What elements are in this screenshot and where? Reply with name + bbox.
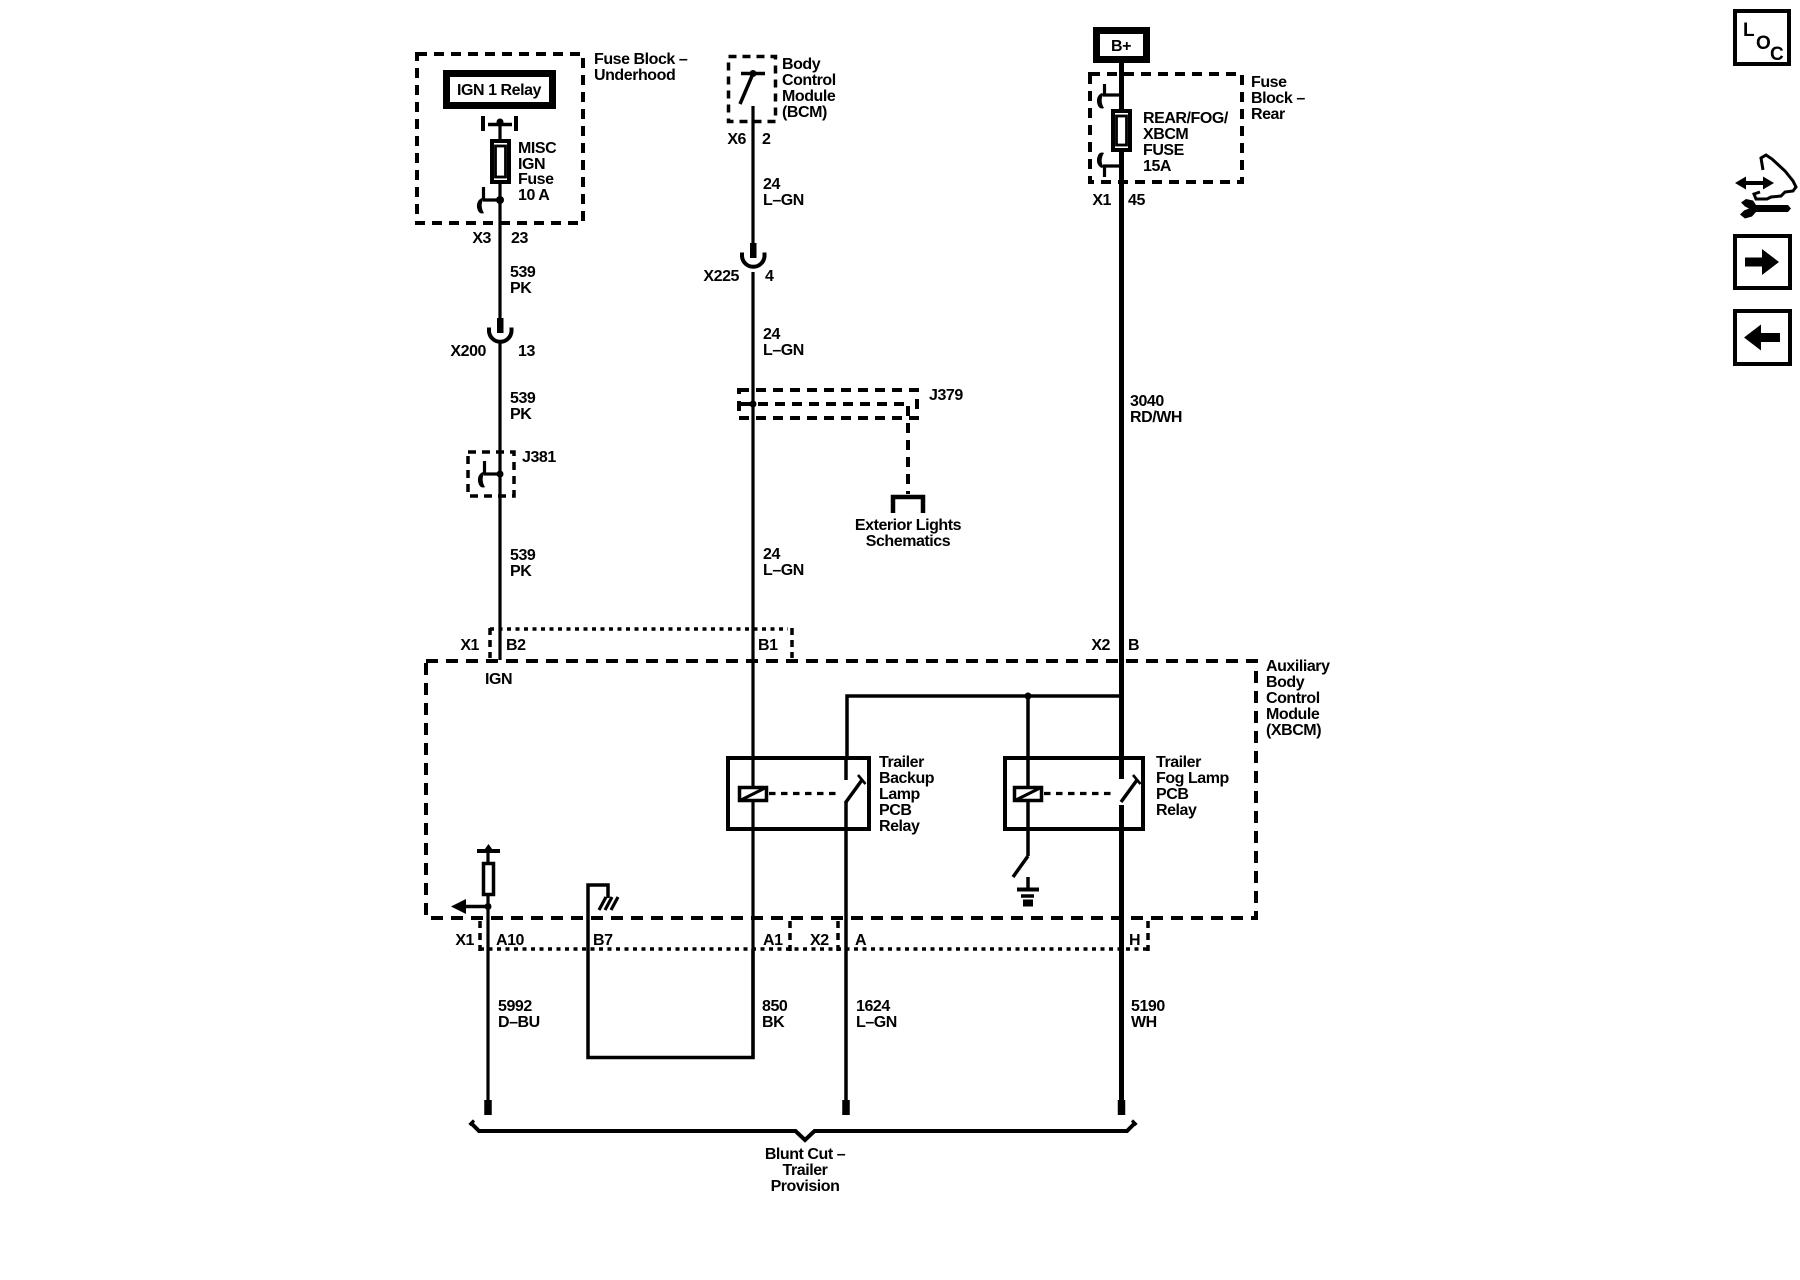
- BCM driver switch symbol: [740, 70, 765, 104]
- svg-text:Lamp: Lamp: [879, 786, 921, 803]
- svg-text:J379: J379: [929, 387, 963, 404]
- wire label 24 L-GN (second): [763, 326, 804, 359]
- fog relay coil: [1015, 788, 1042, 801]
- wire W2: backup relay coil to A1 / 850 BK loop: [751, 801, 754, 1059]
- dashed actuation link (backup relay): [769, 792, 841, 795]
- svg-text:4: 4: [765, 268, 774, 285]
- svg-text:IGN: IGN: [485, 671, 512, 688]
- pin labels X1 / A10 (bottom strip): [455, 932, 524, 949]
- label: Blunt Cut - Trailer Provision: [765, 1146, 846, 1195]
- pin labels X1 / 45: [1092, 192, 1145, 209]
- label: Trailer Fog Lamp PCB Relay: [1156, 754, 1230, 819]
- svg-text:Block –: Block –: [1251, 90, 1305, 107]
- bottom strip separators: [480, 921, 1148, 951]
- svg-text:H: H: [1129, 932, 1140, 949]
- blunt cut tip of 1624 L-GN: [842, 1100, 850, 1115]
- svg-text:B7: B7: [593, 932, 613, 949]
- nav icon: sketched arrow outline: [1754, 155, 1796, 199]
- wire label 3040 RD/WH: [1130, 393, 1182, 426]
- pin labels X2 / B (top strip): [1091, 637, 1139, 654]
- svg-text:13: 13: [518, 343, 535, 360]
- svg-text:24: 24: [763, 176, 780, 193]
- svg-text:Rear: Rear: [1251, 106, 1285, 123]
- ground symbol: [1017, 877, 1039, 907]
- svg-text:Trailer: Trailer: [879, 754, 924, 771]
- svg-text:15A: 15A: [1143, 158, 1172, 175]
- wire label 539 PK (lower): [510, 547, 536, 580]
- splice J381 dashed box: [468, 452, 514, 496]
- svg-text:X1: X1: [460, 637, 479, 654]
- svg-text:RD/WH: RD/WH: [1130, 409, 1182, 426]
- svg-text:Auxiliary: Auxiliary: [1266, 658, 1330, 675]
- svg-text:PCB: PCB: [879, 802, 911, 819]
- dashed actuation link (fog relay): [1044, 792, 1116, 795]
- svg-text:MISC: MISC: [518, 140, 557, 157]
- svg-text:23: 23: [511, 230, 528, 247]
- pin label H (bottom strip): [1129, 932, 1140, 949]
- svg-text:24: 24: [763, 326, 780, 343]
- relay box: IGN 1 Relay: [447, 74, 553, 106]
- wire: backup relay switch to X2-A (1624 L-GN): [844, 801, 848, 1101]
- wire B+: below fog relay switch down to blunt cut: [1119, 805, 1124, 1101]
- nav icon: double arrow: [1735, 177, 1774, 190]
- svg-text:X2: X2: [1091, 637, 1110, 654]
- label: Exterior Lights Schematics: [855, 517, 962, 550]
- svg-text:L–GN: L–GN: [856, 1014, 897, 1031]
- terminal hook upper (fuse block rear): [1097, 84, 1121, 109]
- svg-text:Control: Control: [1266, 690, 1320, 707]
- blunt cut tip of 5992 D-BU: [484, 1100, 492, 1115]
- fuse block rear dashed box: [1090, 74, 1242, 182]
- svg-text:A1: A1: [763, 932, 783, 949]
- svg-text:Module: Module: [1266, 706, 1320, 723]
- ground switch blade: [1013, 856, 1028, 877]
- svg-text:X1: X1: [1092, 192, 1111, 209]
- XBCM dashed box: [426, 661, 1256, 918]
- wire W1: X200 to XBCM pin B2 (539 PK): [498, 343, 501, 660]
- terminal hook lower (fuse block rear): [1097, 153, 1121, 178]
- svg-text:IGN 1 Relay: IGN 1 Relay: [457, 82, 542, 99]
- svg-text:2: 2: [762, 131, 771, 148]
- svg-text:Provision: Provision: [771, 1178, 840, 1195]
- svg-text:539: 539: [510, 547, 536, 564]
- svg-text:5190: 5190: [1131, 998, 1165, 1015]
- label J379: [929, 387, 963, 404]
- svg-text:A: A: [855, 932, 867, 949]
- wire W1: IGN1 relay to X200 (539 PK): [498, 124, 501, 318]
- svg-text:PCB: PCB: [1156, 786, 1188, 803]
- direction arrow out of XBCM: [451, 899, 492, 914]
- svg-text:B2: B2: [506, 637, 526, 654]
- wire label 5992 D-BU: [498, 998, 540, 1031]
- svg-text:Schematics: Schematics: [866, 533, 951, 550]
- backup relay switch: [846, 758, 866, 802]
- wire label 539 PK (upper): [510, 264, 536, 297]
- svg-text:24: 24: [763, 546, 780, 563]
- blunt cut tip of 5190 WH: [1118, 1100, 1126, 1115]
- wire: sensor element to X1-A10 (5992 D-BU): [486, 895, 489, 1101]
- label: MISC IGN Fuse 10 A: [518, 140, 557, 204]
- pin labels X225 / 4: [703, 268, 774, 285]
- svg-text:L: L: [1743, 20, 1755, 41]
- wire B+: thick feed from B+ box to fog relay switch (3040 RD/WH, 5190 WH): [1119, 63, 1124, 779]
- svg-text:Fuse Block –: Fuse Block –: [594, 51, 688, 68]
- nav icon: wrench: [1740, 199, 1791, 219]
- svg-text:C: C: [1770, 44, 1784, 65]
- label IGN (internal net): [485, 671, 512, 688]
- wire label 24 L-GN (upper): [763, 176, 804, 209]
- XBCM X1 connector strip (top): [490, 628, 792, 658]
- svg-text:Body: Body: [1266, 674, 1305, 691]
- svg-text:Exterior Lights: Exterior Lights: [855, 517, 962, 534]
- svg-text:O: O: [1756, 33, 1770, 54]
- svg-text:Fuse: Fuse: [1251, 74, 1287, 91]
- ground lead B7 inside XBCM: [588, 885, 608, 949]
- wire 850 BK loop B7 to A1: [588, 949, 753, 1058]
- label: Trailer Backup Lamp PCB Relay: [879, 754, 935, 835]
- svg-text:Underhood: Underhood: [594, 67, 675, 84]
- BCM dashed box: [729, 57, 776, 122]
- svg-text:L–GN: L–GN: [763, 562, 804, 579]
- svg-text:Fog Lamp: Fog Lamp: [1156, 770, 1230, 787]
- svg-text:X3: X3: [472, 230, 491, 247]
- label: Fuse Block - Underhood: [594, 51, 688, 84]
- pin label B1 (top strip): [758, 637, 778, 654]
- svg-text:FUSE: FUSE: [1143, 142, 1185, 159]
- svg-text:B1: B1: [758, 637, 778, 654]
- terminal hook below fuse with junction dot: [477, 187, 504, 214]
- svg-text:Module: Module: [782, 88, 836, 105]
- wire label 24 L-GN (lower): [763, 546, 804, 579]
- label: Auxiliary Body Control Module (XBCM): [1266, 658, 1330, 739]
- svg-text:B+: B+: [1111, 38, 1131, 55]
- svg-text:X225: X225: [703, 268, 739, 285]
- junction dot on W2 inside J379: [750, 401, 757, 408]
- wire W2: X225 to backup relay coil (24 L-GN): [751, 272, 754, 787]
- svg-text:Body: Body: [782, 56, 821, 73]
- XBCM internal sensor element: [477, 844, 500, 895]
- label J381: [522, 449, 556, 466]
- svg-text:PK: PK: [510, 280, 532, 297]
- backup relay coil: [740, 788, 767, 801]
- back arrow box: [1735, 311, 1790, 364]
- wire W2: BCM to X225 (24 L-GN): [751, 106, 754, 243]
- svg-text:3040: 3040: [1130, 393, 1164, 410]
- svg-text:REAR/FOG/: REAR/FOG/: [1143, 110, 1229, 127]
- wire label 5190 WH: [1131, 998, 1165, 1031]
- svg-text:(XBCM): (XBCM): [1266, 722, 1321, 739]
- svg-text:X6: X6: [727, 131, 746, 148]
- svg-text:XBCM: XBCM: [1143, 126, 1188, 143]
- pin labels X200 / 13: [450, 343, 535, 360]
- svg-text:1624: 1624: [856, 998, 890, 1015]
- relay contact bracket terminals: [483, 116, 516, 131]
- label: Fuse Block - Rear: [1251, 74, 1305, 123]
- wire label 850 BK: [762, 998, 788, 1031]
- svg-text:Trailer: Trailer: [1156, 754, 1201, 771]
- svg-text:X1: X1: [455, 932, 474, 949]
- svg-text:B: B: [1128, 637, 1139, 654]
- svg-text:Trailer: Trailer: [783, 1162, 828, 1179]
- brace: blunt cut trailer provision: [470, 1121, 1137, 1141]
- LOC page icon: [1735, 11, 1789, 65]
- svg-text:A10: A10: [496, 932, 525, 949]
- fog relay switch: [1121, 775, 1141, 802]
- fuse block underhood dashed box: [417, 54, 583, 223]
- svg-text:Fuse: Fuse: [518, 171, 554, 188]
- svg-text:D–BU: D–BU: [498, 1014, 540, 1031]
- wire: fog relay coil to ground switch: [1026, 801, 1030, 856]
- relay box: Trailer Backup Lamp PCB Relay: [728, 758, 869, 829]
- svg-text:10 A: 10 A: [518, 187, 550, 204]
- svg-text:(BCM): (BCM): [782, 104, 827, 121]
- inline connector X225 (terminal bar and socket): [742, 243, 765, 267]
- pin labels X6 / 2: [727, 131, 771, 148]
- power feed B+ box: [1097, 31, 1147, 60]
- svg-text:X200: X200: [450, 343, 486, 360]
- wire label 539 PK (middle): [510, 390, 536, 423]
- label: Body Control Module (BCM): [782, 56, 836, 121]
- svg-text:850: 850: [762, 998, 788, 1015]
- svg-text:45: 45: [1128, 192, 1145, 209]
- chassis ground hatch: [599, 897, 618, 910]
- svg-text:539: 539: [510, 264, 536, 281]
- dashed lead from J379 to off-page bracket: [906, 406, 910, 494]
- svg-text:BK: BK: [762, 1014, 785, 1031]
- off-page pointer bracket: [893, 497, 923, 513]
- svg-text:L–GN: L–GN: [763, 192, 804, 209]
- wire: backup relay switch to B junction: [847, 696, 1121, 757]
- label: REAR/FOG/ XBCM FUSE 15A: [1143, 110, 1229, 175]
- svg-text:L–GN: L–GN: [763, 342, 804, 359]
- pin labels X1 / B2 (top strip): [460, 637, 526, 654]
- svg-text:WH: WH: [1131, 1014, 1157, 1031]
- junction node on B feed branch: [1025, 693, 1032, 700]
- bottom connector strip dotted line: [480, 947, 1147, 951]
- wire label 1624 L-GN: [856, 998, 897, 1031]
- wire: junction down to fog relay coil: [1026, 696, 1030, 787]
- svg-text:5992: 5992: [498, 998, 532, 1015]
- svg-text:PK: PK: [510, 563, 532, 580]
- svg-text:Backup: Backup: [879, 770, 935, 787]
- svg-text:Control: Control: [782, 72, 836, 89]
- splice pack J379 dashed box: [739, 390, 917, 418]
- forward arrow box: [1735, 236, 1790, 288]
- svg-text:Relay: Relay: [879, 818, 920, 835]
- svg-text:Blunt Cut –: Blunt Cut –: [765, 1146, 846, 1163]
- svg-text:J381: J381: [522, 449, 556, 466]
- svg-text:539: 539: [510, 390, 536, 407]
- pin label B7 (bottom strip): [593, 932, 613, 949]
- pin labels X3 / 23: [472, 230, 528, 247]
- svg-text:PK: PK: [510, 406, 532, 423]
- fuse symbol: REAR/FOG/XBCM FUSE 15A: [1113, 111, 1130, 150]
- pin labels A1 / X2 / A (bottom strip): [763, 932, 867, 949]
- relay box: Trailer Fog Lamp PCB Relay: [1005, 758, 1143, 829]
- fuse F1: MISC IGN Fuse 10 A (symbol): [492, 141, 509, 182]
- svg-text:X2: X2: [810, 932, 829, 949]
- splice J381 terminal hook and junction dot: [478, 461, 504, 488]
- inline connector X200 (terminal bar and socket): [489, 318, 512, 342]
- svg-text:Relay: Relay: [1156, 802, 1197, 819]
